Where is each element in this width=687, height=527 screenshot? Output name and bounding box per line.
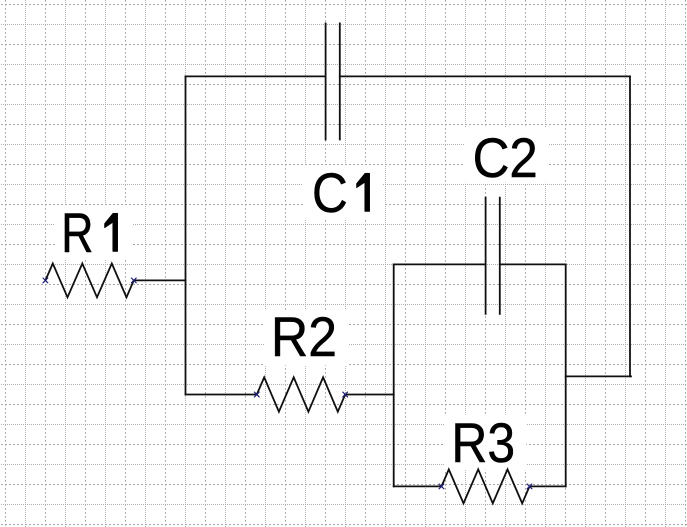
pin marker R1 right (131, 278, 136, 283)
pin marker R1 left (43, 278, 48, 283)
wire R1 to left vertical (134, 279, 186, 281)
resistor R2 (257, 377, 345, 411)
pin marker R3 right (527, 484, 532, 489)
wire box left edge (393, 264, 395, 486)
wire top left (to C1) (186, 75, 326, 77)
svg-text:R: R (61, 201, 93, 264)
pin marker R3 left (439, 484, 444, 489)
wire bottom to R2 (186, 394, 257, 396)
svg-text:R2: R2 (271, 306, 337, 368)
capacitor C1 (325, 23, 327, 139)
wire box top left (to C2) (394, 263, 486, 265)
resistor R3 (442, 469, 530, 503)
wire box bottom to R3 (394, 485, 442, 487)
label background R1 (55, 205, 133, 260)
wire box right edge (565, 264, 567, 486)
wire right vertical (629, 76, 631, 376)
pin marker R2 right (343, 392, 348, 397)
wire left vertical (185, 76, 187, 394)
svg-text:C2: C2 (473, 128, 538, 190)
label background C2 (464, 128, 548, 183)
wire R3 to box right (530, 485, 566, 487)
pin marker R2 left (254, 392, 259, 397)
capacitor C2 (485, 198, 487, 314)
label background R3 (445, 415, 526, 470)
wire top right (C1 to right vertical) (340, 75, 630, 77)
resistor R1 (45, 264, 133, 298)
wire R2 to box left (345, 394, 394, 396)
svg-text:R3: R3 (451, 412, 515, 474)
label background C1 (303, 165, 383, 220)
wire box top right (C2 to box right) (500, 263, 566, 265)
svg-text:C: C (312, 162, 348, 225)
label background R2 (265, 310, 349, 365)
wire connector right vertical to box (566, 375, 631, 377)
